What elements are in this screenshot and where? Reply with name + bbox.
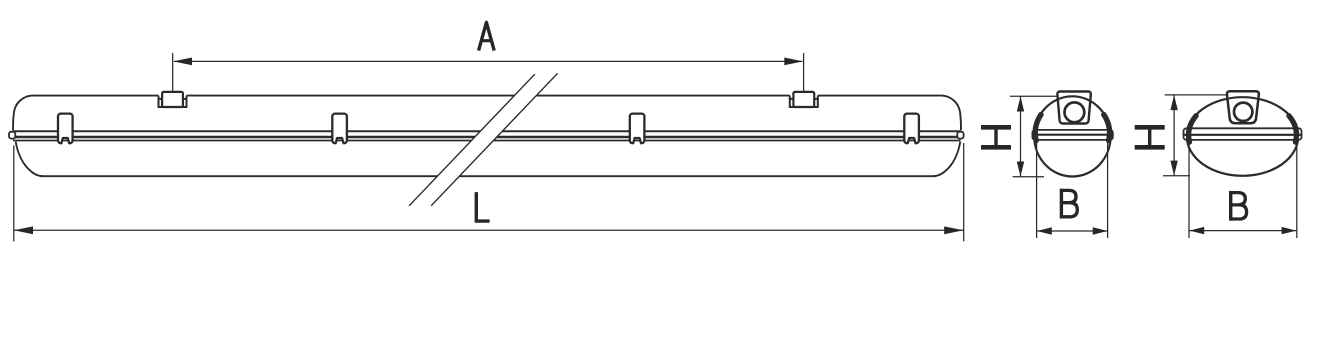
dim A arrow left [173,58,192,66]
end view 1 B dim line [1037,230,1108,232]
end view 2 seam mid line [1184,134,1301,136]
seam left tip cap [9,132,15,139]
dim A extension line right [803,53,805,92]
mounting bracket right body [793,92,814,107]
end view 1 B ext line left [1036,142,1038,239]
end view 1 H arrow down [1017,162,1024,177]
dim L extension line left [13,146,15,242]
end view 2 B ext line left [1188,142,1190,239]
seam housing bottom line [13,130,961,132]
mounting bracket right recess steps [790,96,818,100]
dim L arrow right [944,226,963,234]
end view 2 bracket [1227,91,1259,123]
end view 2 B arrow left [1189,227,1204,234]
mounting bracket left base [159,99,187,107]
right end cap curve upper [942,96,961,131]
seam gasket line [13,136,961,138]
end view 1 B ext line right [1107,142,1109,239]
break line left [409,74,535,206]
luminaire body bottom edge [40,175,936,177]
dim A arrow right [784,58,803,66]
end view 2 body [1187,97,1298,176]
diffuser clip 4 [904,114,919,144]
end view 2 clip right (black) [1289,116,1296,142]
end view 1 clip right (black) [1104,115,1110,141]
left end cap curve lower [16,142,43,177]
end view 2 bracket hole [1234,103,1252,121]
end view 2 clip left (black) [1189,116,1196,142]
diffuser clip 3 [630,114,645,144]
end view 1 H arrow up [1017,97,1024,112]
end view 1 bracket [1057,92,1090,124]
seam diffuser top line [13,140,961,142]
end view 2 H bottom tick [1163,175,1190,177]
end view 1 seam mid line [1033,134,1112,136]
end view 2 H arrow down [1170,161,1177,176]
dim label A [479,22,495,50]
diffuser clip 2 [332,114,347,144]
end view 2 B ext line right [1296,142,1298,239]
seam right tip cap [957,132,963,139]
mounting bracket left body [162,92,183,107]
mounting bracket right base [790,99,818,107]
left end cap curve upper [13,96,32,131]
end view 1 H dim line [1020,96,1022,176]
end view 1 B arrow left [1037,227,1052,234]
dim A line [174,60,803,62]
end view 1 body [1034,96,1110,176]
end view 2 H top tick [1165,94,1226,96]
break line right [431,73,557,206]
end view 2 B dim line [1189,230,1296,232]
dim L extension line right [963,143,965,241]
end view 1 H bottom tick [1013,176,1044,178]
end view 1 H top tick [1010,95,1057,97]
right end cap curve lower [933,142,960,177]
end view 1 bracket hole [1065,102,1085,122]
break band (white gap between break lines) [409,73,557,206]
end view 1 label H (rotated) [981,127,1011,147]
luminaire body top edge [32,95,943,97]
end view 1 seam bar [1032,130,1112,140]
diffuser clip 1 [58,114,73,144]
end view 1 clip left (black) [1035,115,1041,141]
end view 2 B arrow right [1282,227,1297,234]
end view 1 label B [1061,189,1078,219]
mounting bracket left recess steps [159,96,187,100]
dim A extension line left [172,53,174,92]
dim L arrow left [14,226,33,234]
end view 2 label B [1230,191,1247,221]
end view 2 H dim line [1173,95,1175,176]
dim label L [476,192,489,221]
dim L line [14,229,963,231]
end view 2 label H (rotated) [1135,127,1165,147]
end view 2 seam bar [1184,128,1302,140]
end view 2 H arrow up [1170,95,1177,110]
end view 1 B arrow right [1093,227,1108,234]
